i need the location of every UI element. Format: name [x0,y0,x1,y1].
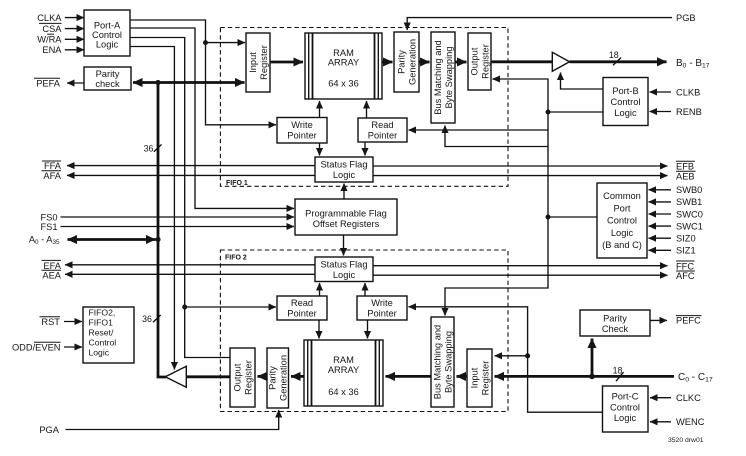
svg-text:Programmable Flag: Programmable Flag [305,209,387,219]
svg-text:Logic: Logic [96,39,119,49]
svg-text:ARRAY: ARRAY [328,365,359,375]
wire B driver to B0-B17 thick [570,60,667,63]
svg-text:Read: Read [371,120,393,130]
svg-text:Read: Read [291,298,313,308]
wire Output Register FIFO2 to A driver thick [186,375,230,378]
tick 18 slash B bus [613,58,621,66]
wire CLKB input [650,91,672,93]
svg-text:RAM: RAM [333,355,354,365]
box Bus Matching and Byte Swapping FIFO2 [431,317,454,407]
wire Bus Matching to Output Register FIFO1 thick [455,61,467,64]
wire A-bus thick vertical [158,83,166,378]
tick 36 slash lower [153,315,161,322]
svg-text:3520 drw01: 3520 drw01 [668,437,704,444]
wire PEFA output arrow [67,82,84,84]
svg-text:Output: Output [469,47,479,75]
wire branch to Bus Matching FIFO1 bottom [445,126,548,147]
wire Port-A out1 to Input Register FIFO1 and Write Pointer FIFO1 [130,20,276,125]
buffer A output driver triangle [165,366,186,387]
svg-text:CLKA: CLKA [37,13,62,23]
svg-text:Parity: Parity [603,314,627,324]
wire CLKC input [650,397,671,399]
wire PEFC output arrow [650,319,667,321]
wire C0-C17 input bus thick [495,375,675,378]
wire SIZ1 input [649,249,672,251]
wire Port-B to vertical junction [548,111,603,113]
svg-text:Reset/: Reset/ [89,328,114,338]
svg-text:Check: Check [602,324,629,334]
junction dot A-bus top [155,80,160,85]
svg-text:ENA: ENA [42,45,62,55]
wire C bus to Parity Check thick [591,339,594,377]
svg-text:PEFC: PEFC [676,316,701,326]
buffer B output driver triangle [552,52,569,71]
dashed box FIFO 1 [220,28,508,187]
wire Write Pointer FIFO1 to Status Flag Logic [319,143,321,156]
svg-text:Output: Output [232,363,242,391]
svg-text:Pointer: Pointer [287,309,316,319]
svg-text:CSA: CSA [42,24,62,34]
svg-text:Logic: Logic [614,413,637,423]
svg-text:RST: RST [41,317,60,327]
svg-text:Pointer: Pointer [367,309,396,319]
wire Write Pointer FIFO1 to RAM [319,101,321,118]
svg-text:Control: Control [92,30,122,40]
svg-text:Parity: Parity [268,366,278,390]
svg-text:AFC: AFC [676,271,695,281]
wire branch to Read Pointer FIFO1 [409,129,549,131]
wire AEA flag output [65,273,315,275]
wire ODD/EVEN input [64,346,82,348]
box Input Register FIFO1 [246,33,270,92]
wire Read Pointer FIFO1 to Status Flag Logic [364,142,366,156]
svg-text:Port-B: Port-B [612,86,638,96]
svg-text:Pointer: Pointer [368,131,397,141]
wire Port-C control vertical to Write Pointer FIFO2 [409,307,603,412]
box Read Pointer FIFO1 [358,118,407,142]
svg-text:Logic: Logic [89,348,110,358]
svg-text:Generation: Generation [407,39,417,85]
wire A0-A35 bidirectional bus [68,238,111,241]
wire EFA flag output [65,264,315,266]
wire PGA input to Parity Generation FIFO2 [66,410,279,430]
svg-text:Byte Swapping: Byte Swapping [444,46,454,108]
svg-text:FFA: FFA [44,161,62,171]
wire WENC input [650,421,671,423]
box RAM ARRAY FIFO1 64x36 [305,33,382,99]
wire RAM to Parity Generation FIFO1 thick [382,61,393,64]
svg-text:36: 36 [142,314,152,324]
svg-text:Generation: Generation [279,355,289,401]
svg-text:Input: Input [469,367,479,388]
svg-text:WENC: WENC [676,417,705,427]
svg-text:Logic: Logic [614,108,637,118]
svg-text:FFC: FFC [676,261,694,271]
wire A-bus thick horizontal to Parity check [133,81,158,84]
wire to Output Register FIFO1 clock (arrowhead) [493,78,501,80]
svg-text:PGA: PGA [39,425,59,435]
box Bus Matching and Byte Swapping FIFO1 [431,32,455,123]
junction dot Port-C branch [525,353,530,358]
svg-text:SWC0: SWC0 [676,209,703,219]
svg-text:Parity: Parity [396,50,406,74]
box Common Port Control Logic (B and C) [597,183,647,258]
box RAM ARRAY FIFO2 64x36 [304,340,383,406]
svg-text:Logic: Logic [333,270,356,280]
svg-text:Parity: Parity [96,69,120,79]
wire Input Register FIFO2 to Bus Matching thick [457,375,468,378]
box Parity Check (Port C) [580,310,650,336]
svg-text:Bus Matching and: Bus Matching and [432,325,442,399]
wire Port-A out3 to Read Pointer FIFO2 and Output Register FIFO2 [130,38,230,358]
box FIFO2 FIFO1 Reset Control Logic [83,307,134,363]
wire W/RA input arrow [65,38,84,40]
wire Bus Matching FIFO2 to RAM thick [386,375,432,378]
svg-text:Port: Port [613,203,630,213]
wire PGB input to Parity Generation FIFO1 [407,18,672,30]
wire SWB1 input [649,201,672,203]
svg-text:Control: Control [89,338,117,348]
box Programmable Flag Offset Registers [295,199,397,235]
svg-text:Control: Control [607,216,637,226]
svg-text:SWB0: SWB0 [676,185,702,195]
wire Write Pointer FIFO2 to Status Flag Logic [364,283,366,296]
wire Programmable Flag to Status Flag Logic FIFO2 [343,235,345,256]
wire Read Pointer FIFO2 to RAM [318,320,320,339]
svg-text:Status Flag: Status Flag [320,260,367,270]
wire FS1 input [61,226,295,228]
svg-text:Register: Register [243,360,253,395]
wire ENA input arrow [65,49,84,51]
tick 18 slash C bus [616,372,624,381]
box Status Flag Logic FIFO1 [315,157,373,182]
svg-text:Input: Input [248,52,258,73]
wire Programmable Flag to Status Flag Logic FIFO1 [343,184,345,200]
wire AFC flag output [373,274,668,276]
svg-text:64 x 36: 64 x 36 [328,78,359,88]
svg-text:EFA: EFA [43,261,61,271]
svg-text:18: 18 [609,50,619,60]
svg-text:RAM: RAM [333,48,354,58]
svg-text:FIFO2,: FIFO2, [89,307,116,317]
box Write Pointer FIFO1 [277,118,327,144]
svg-text:Pointer: Pointer [287,131,316,141]
box Port-C Control Logic [603,386,649,432]
wire AEB flag output [373,175,668,177]
box Write Pointer FIFO2 [357,296,407,320]
svg-text:RENB: RENB [676,107,702,117]
svg-text:FIFO 1: FIFO 1 [226,180,248,187]
svg-text:AFA: AFA [43,171,61,181]
wire CSA input arrow [65,28,84,30]
svg-text:Bus Matching and: Bus Matching and [433,40,443,114]
junction dot A0-A35 [155,237,160,242]
wire SWB0 input [649,189,672,191]
wire CLKA input arrow [65,17,84,19]
svg-text:Control: Control [611,97,641,107]
svg-text:PGB: PGB [676,13,696,23]
svg-text:SWC1: SWC1 [676,221,703,231]
wire FFC flag output [373,265,668,267]
wire Write Pointer FIFO2 to RAM [367,320,369,339]
svg-text:(B and C): (B and C) [602,240,642,250]
svg-text:Register: Register [480,361,490,396]
svg-text:Common: Common [603,191,641,201]
wire Port-B control bus vertical [445,79,548,316]
box Parity Generation FIFO2 [267,348,289,408]
svg-text:Offset Registers: Offset Registers [313,219,380,229]
svg-text:FS0: FS0 [40,212,57,222]
box Status Flag Logic FIFO2 [315,257,373,282]
wire Read Pointer FIFO2 to Status Flag Logic [319,283,321,296]
svg-text:Byte Swapping: Byte Swapping [443,331,453,393]
wire SWC0 input [649,213,672,215]
wire A-bus thick horizontal to Input Register FIFO1 [158,81,245,84]
junction dot [182,305,187,310]
svg-text:AEA: AEA [42,271,61,281]
wire AFA flag output [67,174,315,176]
wire Parity Generation to Bus Matching FIFO1 thick [419,61,430,64]
wire Port-A out4 to A output driver enable [130,47,174,370]
box Read Pointer FIFO2 [277,296,327,320]
svg-text:CLKB: CLKB [676,87,700,97]
box Port-B Control Logic [603,78,648,126]
svg-text:check: check [95,79,120,89]
svg-text:ODD/EVEN: ODD/EVEN [12,342,61,352]
svg-text:FIFO1: FIFO1 [89,317,114,327]
wire Input Register FIFO1 to RAM thick [270,61,303,64]
wire branch to Common Port Control Logic [548,216,597,218]
box Port-A Control Logic [84,10,130,56]
svg-text:FS1: FS1 [40,222,57,232]
tick 36 slash upper [154,145,162,152]
svg-text:EFB: EFB [676,162,694,172]
svg-text:18: 18 [613,366,623,376]
svg-text:SIZ0: SIZ0 [676,234,696,244]
junction dot [203,40,208,45]
wire SIZ0 input [649,237,672,239]
svg-text:Logic: Logic [333,170,356,180]
box Output Register FIFO1 [468,33,491,90]
svg-text:Control: Control [610,402,640,412]
wire RAM FIFO2 to Parity Generation thick [291,375,304,378]
svg-text:Register: Register [480,44,490,79]
svg-text:Write: Write [371,298,393,308]
svg-text:36: 36 [144,143,154,153]
wire RENB input [650,111,672,113]
wire Port-B enable to B driver [561,73,604,90]
svg-text:Port-C: Port-C [612,392,639,402]
junction dot Port-B [546,110,551,115]
wire RST input [64,321,82,323]
wire branch to Input Register FIFO2 clock [495,355,528,357]
wire EFB flag output [373,165,668,167]
svg-text:FIFO 2: FIFO 2 [225,255,247,262]
wire Read Pointer FIFO1 to RAM [366,101,368,118]
svg-text:Status Flag: Status Flag [320,160,367,170]
wire Port-A out2 to Programmable Flag Offset Registers [130,28,294,208]
junction dot C bus [589,374,595,380]
box Parity check (Port A) [84,67,131,90]
svg-text:PEFA: PEFA [36,78,61,88]
svg-text:W/RA: W/RA [37,35,62,45]
wire Parity Generation to Output Register FIFO2 thick [258,375,268,378]
wire SWC1 input [649,225,672,227]
wire FS0 input [61,216,295,218]
svg-text:ARRAY: ARRAY [328,58,359,68]
svg-text:CLKC: CLKC [676,393,701,403]
wire FFA flag output [67,165,315,167]
svg-text:AEB: AEB [676,172,695,182]
box Parity Generation FIFO1 [394,32,419,92]
box Output Register FIFO2 [230,348,255,407]
svg-text:SIZ1: SIZ1 [676,246,696,256]
junction dot Common Port branch [546,215,551,220]
svg-text:Write: Write [291,120,313,130]
dashed box FIFO 2 [220,250,508,412]
svg-text:Logic: Logic [611,228,634,238]
svg-text:64 x 36: 64 x 36 [328,387,359,397]
wire Output Register FIFO1 to B driver thick [491,60,552,63]
svg-text:Register: Register [259,45,269,80]
svg-text:SWB1: SWB1 [676,197,702,207]
box Input Register FIFO2 [467,349,492,407]
